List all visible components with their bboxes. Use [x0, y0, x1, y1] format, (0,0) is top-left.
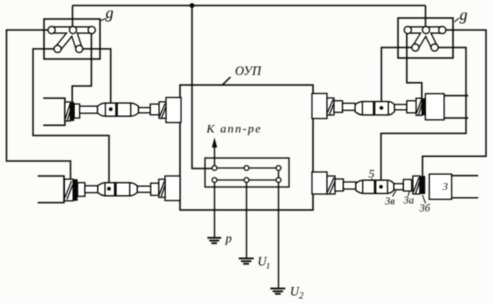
svg-text:3в: 3в [384, 197, 395, 208]
svg-text:5: 5 [369, 167, 375, 181]
svg-text:2: 2 [299, 291, 304, 301]
svg-text:3: 3 [442, 181, 449, 193]
svg-text:3б: 3б [419, 204, 431, 215]
svg-text:ОУП: ОУП [235, 64, 262, 78]
svg-text:g: g [106, 5, 114, 22]
svg-text:р: р [225, 232, 232, 246]
svg-text:g: g [460, 7, 468, 24]
svg-text:3а: 3а [403, 196, 415, 207]
svg-text:К апп-ре: К апп-ре [206, 122, 263, 136]
svg-text:1: 1 [266, 261, 270, 271]
